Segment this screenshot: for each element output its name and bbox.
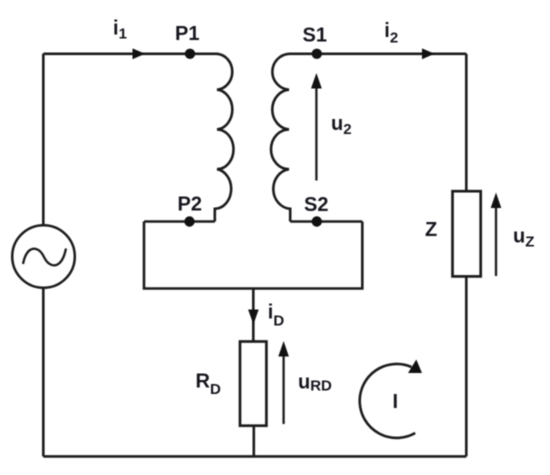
node P2 xyxy=(184,216,194,226)
current arrow i1 xyxy=(133,48,146,59)
wire: P2 horizontal xyxy=(144,220,215,223)
node S2 xyxy=(312,216,322,226)
svg-text:P1: P1 xyxy=(175,23,199,45)
svg-text:RD: RD xyxy=(196,371,221,398)
wire: bottom horizontal xyxy=(43,455,466,458)
wire: connection box left/bottom/right xyxy=(144,222,362,289)
current arrow i2 xyxy=(422,48,435,59)
mesh current loop I arrowhead xyxy=(408,360,422,374)
wire: left vertical upper xyxy=(42,54,45,226)
wire: top left horizontal xyxy=(43,52,218,55)
svg-text:P2: P2 xyxy=(178,194,202,216)
current arrow iD xyxy=(248,310,259,325)
wire: right vertical upper xyxy=(465,54,468,192)
svg-text:uRD: uRD xyxy=(298,372,332,395)
voltage arrow uRD xyxy=(282,353,284,424)
source V1 sine symbol xyxy=(23,249,66,266)
svg-text:S2: S2 xyxy=(304,194,328,216)
svg-text:I: I xyxy=(393,391,399,413)
wire: top right horizontal xyxy=(289,52,466,55)
resistor RD body xyxy=(240,342,266,426)
inductor L2 secondary winding S1-S2 xyxy=(271,54,290,222)
svg-text:Z: Z xyxy=(425,219,437,241)
wire: S2 horizontal xyxy=(290,220,362,223)
wire: RD bottom to ground rail xyxy=(253,426,256,457)
node S1 xyxy=(312,49,322,59)
voltage arrow u2 xyxy=(315,85,317,181)
svg-text:S1: S1 xyxy=(303,25,327,47)
node P1 xyxy=(185,49,195,59)
svg-text:uZ: uZ xyxy=(513,226,534,251)
svg-text:i2: i2 xyxy=(384,20,398,47)
svg-text:iD: iD xyxy=(268,302,285,330)
mesh current loop I arc xyxy=(360,364,415,438)
voltage arrow uz xyxy=(495,205,497,276)
wire: left vertical lower xyxy=(42,288,45,457)
wire: center drop to RD xyxy=(252,289,255,342)
inductor L1 primary winding P1-P2 xyxy=(215,54,234,222)
impedance Z body xyxy=(453,191,481,276)
wire: right vertical lower xyxy=(465,276,468,456)
source V1 (AC) circle xyxy=(12,225,75,288)
svg-text:u2: u2 xyxy=(331,113,352,138)
svg-text:i1: i1 xyxy=(113,18,127,43)
